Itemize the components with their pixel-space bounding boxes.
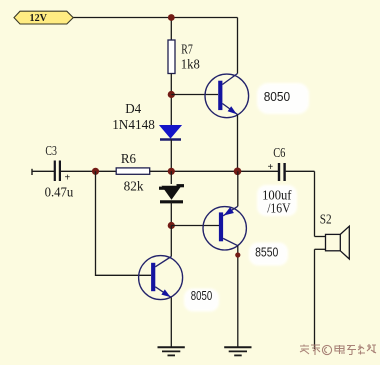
wire: rail dot to R7 top: [170, 18, 172, 41]
wire: speaker branch down: [314, 171, 316, 236]
node: C3/R6 junction: [92, 168, 99, 175]
node: rail junction: [168, 14, 175, 21]
diode D5 (black): [159, 186, 184, 202]
svg-text:+: +: [65, 173, 71, 184]
svg-text:1N4148: 1N4148: [112, 118, 155, 133]
node: output junction: [234, 168, 242, 176]
resistor R7: [168, 40, 175, 74]
wire: black diode to lower node: [170, 171, 172, 225]
wire: input to C3: [32, 170, 54, 172]
ground (right): [224, 347, 251, 355]
svg-text:82k: 82k: [124, 179, 144, 194]
wire: base of Q1: [171, 94, 218, 96]
wire: rail corner down to Q1 collector: [237, 18, 239, 74]
svg-text:C6: C6: [273, 146, 285, 161]
node: R7 / base junction: [168, 91, 175, 98]
capacitor C3: [55, 161, 71, 184]
svg-text:0.47u: 0.47u: [45, 185, 74, 200]
wire: top +12V rail: [73, 17, 238, 19]
wire: speaker bottom stub: [315, 248, 326, 250]
svg-text:1k8: 1k8: [181, 57, 200, 72]
watermark 头条@电子老孙: [300, 344, 376, 355]
node: Q2 collector pin dot: [235, 252, 240, 257]
capacitor C6: [268, 162, 285, 181]
wire: Q2 emitter up to output node: [237, 171, 239, 206]
transistor Q3 8050 (bottom NPN): [139, 256, 183, 300]
white patch behind label: [184, 289, 219, 312]
wire: Q1 emitter down to output node: [237, 115, 239, 172]
svg-text:8550: 8550: [255, 246, 278, 260]
wire: C3 to R6: [61, 170, 117, 172]
svg-text:S2: S2: [320, 213, 332, 228]
transistor Q2 8550 (PNP): [203, 206, 246, 250]
svg-text:8050: 8050: [264, 90, 291, 104]
node: Q3 collector / Q2 base junction: [168, 222, 175, 229]
wire: base of Q2: [171, 225, 219, 227]
speaker S2: [326, 226, 350, 259]
wire: R7 bottom to D4: [170, 74, 172, 126]
svg-text:R6: R6: [121, 152, 136, 167]
wire: speaker top stub: [315, 236, 326, 238]
ground (left): [158, 347, 185, 355]
wire: speaker to bottom: [314, 249, 316, 349]
svg-text:/16V: /16V: [267, 202, 290, 217]
wire: D4 to center line: [170, 140, 172, 172]
svg-text:+: +: [268, 162, 274, 173]
svg-text:8050: 8050: [191, 289, 212, 303]
svg-text:12V: 12V: [30, 13, 48, 24]
white patch behind label: [249, 243, 288, 266]
resistor R6: [116, 168, 150, 174]
wire: C3 node down and right to Q3 base: [96, 171, 152, 275]
transistor Q1 8050 (top NPN): [205, 74, 249, 118]
white patch behind label: [257, 83, 309, 114]
wire: lower node down to Q3 collector: [170, 226, 172, 257]
wire: C6 to speaker branch: [286, 170, 315, 172]
power flag +12V: [14, 11, 73, 24]
input terminal tick: [31, 169, 33, 175]
node: R6 / D4 junction: [168, 168, 175, 175]
svg-text:D4: D4: [125, 102, 141, 117]
white patch behind value: [257, 185, 297, 216]
diode D4 1N4148: [160, 126, 181, 140]
svg-text:R7: R7: [181, 42, 193, 57]
wire: Q3 emitter to ground: [170, 298, 172, 348]
svg-text:C3: C3: [45, 144, 57, 159]
wire: R6 to center node: [150, 170, 279, 172]
wire: Q2 collector down to ground: [237, 246, 239, 347]
